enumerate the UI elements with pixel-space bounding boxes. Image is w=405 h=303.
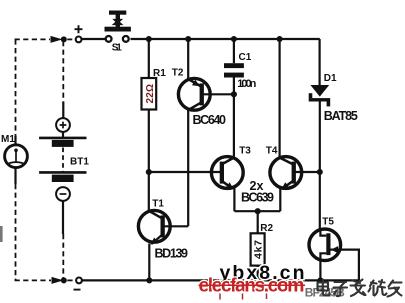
- wire: node to T3 base (crosses T2 collector line): [149, 171, 221, 173]
- switch S1: [105, 11, 131, 42]
- wire: T1 base to riser: [164, 225, 188, 227]
- svg-text:T4: T4: [266, 146, 278, 157]
- svg-text:4k7: 4k7: [252, 240, 264, 259]
- node: D1 / T4 base / T5 drain: [317, 169, 323, 175]
- svg-text:S1: S1: [112, 43, 122, 54]
- wire: R1 bottom lead to node: [148, 110, 150, 173]
- wire: short dash to + terminal: [67, 38, 72, 40]
- terminal: + output circle: [76, 37, 82, 43]
- transistor T4 (BC639, NPN, base right): [270, 157, 302, 190]
- wire: dashed battery-box left edge (bottom segment): [15, 184, 17, 280]
- node: C1 / T2 base / T3 collector: [231, 91, 237, 97]
- resistor R1: [142, 78, 157, 110]
- wire: T1 collector lead: [148, 172, 150, 211]
- svg-text:BAT85: BAT85: [324, 109, 358, 123]
- wire: T2 collector riser down to T1 base corner: [187, 110, 189, 226]
- wire: D1 anode lead from top rail corner: [319, 39, 321, 85]
- wire: T3 emitter lead down: [233, 188, 235, 211]
- wire: D1 cathode lead down: [319, 101, 321, 172]
- svg-text:R2: R2: [260, 223, 273, 234]
- node: emitter tie / R2: [255, 208, 261, 214]
- wire: emitter tie bar T3-T4: [234, 210, 280, 212]
- wire: T4 emitter lead down: [279, 188, 281, 211]
- transistor T5 (BF245B JFET): [309, 229, 341, 261]
- wire: battery branch solid above + pole: [62, 102, 64, 118]
- node: top rail / R1: [146, 36, 152, 42]
- node: battery tap top: [61, 36, 67, 42]
- wire: T5 gate loop right and down: [339, 250, 359, 281]
- artifact smudge left edge: [0, 226, 3, 242]
- svg-text:D1: D1: [324, 73, 337, 84]
- wire: solid above M1: [14, 136, 16, 146]
- svg-text:BC639: BC639: [241, 190, 274, 204]
- battery BT1 cell 2: [39, 172, 86, 182]
- node: battery tap bottom: [61, 277, 67, 283]
- svg-text:BT1: BT1: [70, 157, 89, 168]
- polarity arrow bottom: [52, 277, 64, 284]
- wire: T4 base to D1 line: [295, 171, 320, 173]
- wire: bottom rail: [83, 279, 359, 281]
- wire: T5 source lead down: [319, 260, 321, 281]
- node: R1 / T1 collector / T3 base: [146, 169, 152, 175]
- wire: dashed top edge to arrow: [15, 38, 50, 40]
- svg-text:T2: T2: [172, 68, 184, 79]
- wire: dashed battery-box left edge (top segment): [15, 39, 17, 135]
- watermark chinese characters 电子发烧友: [318, 280, 402, 297]
- wire: dashed bottom edge to arrow: [15, 279, 51, 281]
- svg-text:R1: R1: [153, 68, 166, 79]
- svg-text:T1: T1: [152, 198, 164, 209]
- polarity arrow top (current direction): [51, 36, 63, 43]
- diode D1 (BAT85 schottky): [309, 85, 331, 106]
- node: top rail / T4: [277, 36, 283, 42]
- node: top rail / T2: [185, 36, 191, 42]
- wire: T2 base to C1 node: [203, 93, 234, 95]
- wire: battery branch dashed from top tap: [62, 41, 64, 102]
- node: R2 / bottom rail: [255, 277, 261, 283]
- svg-text:T5: T5: [322, 216, 334, 227]
- wire: T1 emitter lead: [148, 244, 150, 281]
- wire: R2 top lead: [257, 211, 259, 233]
- wire: T2 emitter lead from top rail: [187, 39, 189, 80]
- wire: + pole to cell 1: [62, 132, 64, 138]
- wire: dashed between cells: [62, 148, 64, 173]
- svg-text:C1: C1: [239, 52, 252, 63]
- battery BT1 negative pole circle: [56, 187, 70, 201]
- capacitor C1: [224, 63, 244, 77]
- watermark elecfans.com: [199, 274, 306, 299]
- wire: T4 collector lead from top rail: [279, 39, 281, 158]
- svg-text:T3: T3: [239, 146, 251, 157]
- svg-text:100n: 100n: [237, 78, 256, 90]
- wire: below - pole solid: [62, 201, 64, 234]
- wire: battery branch dashed to bottom tap: [62, 234, 64, 279]
- label: + sign: [75, 25, 83, 33]
- resistor R2: [251, 233, 265, 265]
- terminal: - output circle: [76, 278, 82, 284]
- meter M1: [5, 145, 28, 168]
- node: T1 emitter / bottom rail: [146, 277, 152, 283]
- wire: R1 top lead: [148, 39, 150, 78]
- transistor T2 (BC640, PNP, base right): [178, 78, 210, 110]
- wire: C1 top lead: [233, 39, 235, 63]
- wire: top rail: [131, 38, 320, 40]
- wire: C1 bottom lead: [233, 78, 235, 95]
- transistor T3 (BC639, NPN, base left): [211, 157, 243, 190]
- svg-text:BC640: BC640: [193, 113, 227, 127]
- label: - sign: [74, 289, 81, 291]
- transistor T1 (BD139, NPN, base right): [138, 210, 170, 244]
- wire: solid below M1: [14, 167, 16, 184]
- battery BT1 cell 1: [39, 138, 86, 147]
- svg-text:M1: M1: [1, 134, 15, 145]
- wire: R2 bottom lead: [257, 266, 259, 281]
- wire: + terminal to S1: [82, 38, 106, 40]
- node: T5 source / bottom rail: [317, 277, 323, 283]
- wire: node down to T5: [319, 172, 321, 231]
- svg-text:22Ω: 22Ω: [145, 84, 156, 104]
- svg-text:BD139: BD139: [155, 247, 189, 261]
- wire: short dash to - terminal: [67, 279, 72, 281]
- wire: T3 collector riser: [233, 94, 235, 158]
- battery BT1 positive pole circle: [56, 118, 70, 132]
- node: top rail / C1: [231, 36, 237, 42]
